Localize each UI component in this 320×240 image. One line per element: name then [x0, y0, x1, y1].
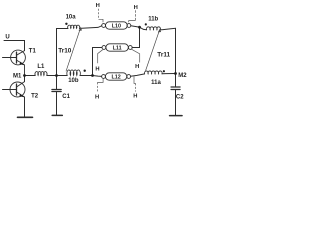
svg-text:C2: C2 [176, 95, 184, 101]
svg-text:L11: L11 [113, 46, 122, 52]
svg-text:T1: T1 [29, 49, 37, 55]
svg-text:H: H [135, 64, 139, 70]
svg-text:L1: L1 [37, 64, 45, 70]
svg-text:10b: 10b [68, 78, 79, 84]
svg-text:L10: L10 [112, 23, 121, 29]
svg-text:Tr11: Tr11 [157, 51, 170, 58]
svg-text:H: H [95, 95, 99, 101]
svg-text:H: H [95, 67, 99, 73]
svg-text:L12: L12 [111, 74, 120, 80]
svg-text:Tr10: Tr10 [58, 47, 72, 54]
svg-text:H: H [134, 5, 138, 11]
svg-text:10a: 10a [66, 15, 77, 21]
svg-text:11b: 11b [148, 17, 158, 23]
svg-text:U: U [5, 35, 9, 41]
svg-text:11a: 11a [151, 80, 161, 86]
svg-text:T2: T2 [31, 93, 39, 99]
svg-text:C1: C1 [62, 94, 70, 100]
svg-text:H: H [96, 3, 100, 9]
svg-text:H: H [133, 93, 137, 99]
svg-text:M2: M2 [178, 73, 187, 79]
svg-text:M1: M1 [13, 73, 22, 79]
